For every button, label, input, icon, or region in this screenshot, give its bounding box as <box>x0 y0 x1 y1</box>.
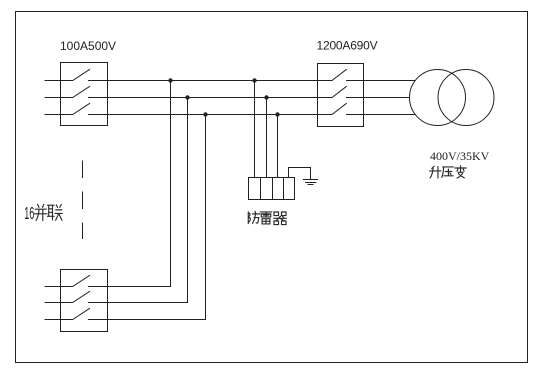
svg-text:16: 16 <box>24 202 34 222</box>
svg-text:100A500V: 100A500V <box>60 39 116 53</box>
svg-text:400V/35KV: 400V/35KV <box>430 149 490 163</box>
svg-text:1200A690V: 1200A690V <box>317 39 378 53</box>
